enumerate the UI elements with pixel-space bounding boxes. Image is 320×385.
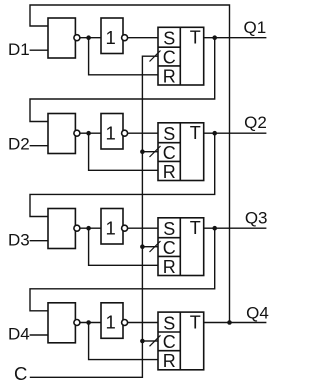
wire: clock branch to C input of FF2	[142, 151, 158, 153]
inversion bubble of gate G2	[74, 130, 80, 136]
wire: feedback from Q2 to gate G3 top input	[30, 133, 215, 216]
inversion bubble of gate G1	[74, 35, 80, 41]
wire: node to R input of FF1	[89, 38, 158, 75]
inversion bubble of gate G4	[74, 320, 80, 326]
wire: T output of FF4 to Q4	[204, 322, 267, 324]
node: G1 output junction	[86, 35, 91, 40]
svg-text:S: S	[163, 124, 175, 144]
inverter U1	[101, 18, 123, 54]
inverter U4	[101, 303, 123, 339]
wire: T output of FF1 to Q1	[204, 37, 267, 39]
wire: clock C distribution	[30, 56, 158, 377]
svg-text:T: T	[190, 28, 201, 48]
wire: gate G1 output node	[75, 37, 101, 39]
node: G2 output junction	[86, 131, 91, 136]
svg-text:C: C	[163, 332, 176, 352]
svg-text:D2: D2	[8, 135, 30, 154]
inversion bubble of inverter U4	[122, 320, 128, 326]
svg-text:Q2: Q2	[244, 113, 267, 132]
inverter U3	[101, 209, 123, 245]
wire: D1 to gate G1	[30, 49, 48, 51]
wire: node to R input of FF2	[89, 133, 158, 170]
junction on Q4 line (feedback to G1)	[227, 320, 232, 325]
wire: inverter U4 output to S input of FF4	[123, 322, 158, 324]
wire: node to R input of FF3	[89, 228, 158, 265]
svg-text:1: 1	[105, 122, 115, 143]
svg-text:S: S	[163, 313, 175, 333]
wire: D2 to gate G2	[30, 145, 48, 147]
dynamic clock input slash of FF2	[150, 146, 161, 157]
inversion bubble of inverter U2	[122, 130, 128, 136]
wire: inverter U1 output to S input of FF1	[123, 37, 158, 39]
svg-text:Q4: Q4	[246, 304, 269, 323]
svg-text:D4: D4	[8, 324, 30, 343]
svg-text:T: T	[190, 218, 201, 238]
svg-text:R: R	[163, 162, 176, 182]
svg-text:S: S	[163, 29, 175, 49]
wire: D3 to gate G3	[30, 240, 48, 242]
gate G1 (2-input, inverted output)	[48, 18, 75, 58]
junction on Q3 line	[212, 226, 217, 231]
flip-flop FF4 (S-C-R / T)	[158, 312, 204, 371]
inversion bubble of inverter U1	[122, 35, 128, 41]
junction on clock line at FF4	[140, 339, 145, 344]
wire: T output of FF3 to Q3	[204, 227, 267, 229]
junction on Q1 line	[212, 35, 217, 40]
wire: feedback from Q1 to gate G2 top input	[30, 38, 215, 122]
wire: clock branch to C input of FF3	[142, 246, 158, 248]
dynamic clock input slash of FF3	[150, 241, 161, 252]
dynamic clock input slash of FF1	[150, 51, 161, 62]
node: G3 output junction	[86, 226, 91, 231]
inversion bubble of gate G3	[74, 225, 80, 231]
wire: inverter U3 output to S input of FF3	[123, 227, 158, 229]
junction on clock line at FF2	[140, 149, 145, 154]
svg-text:Q1: Q1	[244, 18, 267, 37]
wire: gate G2 output node	[75, 132, 101, 134]
wire: feedback from Q3 to gate G4 top input	[30, 228, 215, 311]
svg-text:1: 1	[105, 312, 115, 333]
svg-text:C: C	[163, 47, 176, 67]
svg-text:R: R	[163, 66, 176, 86]
svg-text:Q3: Q3	[245, 209, 268, 228]
svg-text:S: S	[163, 219, 175, 239]
wire: node to R input of FF4	[89, 323, 158, 360]
wire: inverter U2 output to S input of FF2	[123, 132, 158, 134]
svg-text:C: C	[163, 143, 176, 163]
flip-flop FF3 (S-C-R / T)	[158, 218, 204, 277]
wire: clock branch to C input of FF4	[142, 340, 158, 342]
wire: gate G4 output node	[75, 322, 101, 324]
svg-text:D3: D3	[8, 231, 30, 250]
svg-text:T: T	[190, 123, 201, 143]
inversion bubble of inverter U3	[122, 225, 128, 231]
inverter U2	[101, 114, 123, 150]
wire: gate G3 output node	[75, 227, 101, 229]
svg-text:C: C	[14, 363, 27, 384]
svg-text:1: 1	[105, 217, 115, 238]
svg-text:T: T	[190, 312, 201, 332]
gate G4 (2-input, inverted output)	[48, 303, 75, 343]
flip-flop FF2 (S-C-R / T)	[158, 123, 204, 182]
svg-text:R: R	[163, 257, 176, 277]
dynamic clock input slash of FF4	[150, 335, 161, 346]
node: G4 output junction	[86, 320, 91, 325]
wire: T output of FF2 to Q2	[204, 132, 267, 134]
gate G3 (2-input, inverted output)	[48, 209, 75, 249]
svg-text:D1: D1	[8, 40, 30, 59]
junction on clock line at FF3	[140, 244, 145, 249]
svg-text:C: C	[163, 238, 176, 258]
flip-flop FF1 (S-C-R / T)	[158, 27, 204, 86]
gate G2 (2-input, inverted output)	[48, 114, 75, 154]
wire: feedback from Q4 to gate G1 top input	[30, 5, 230, 323]
svg-text:1: 1	[105, 27, 115, 48]
svg-text:R: R	[163, 351, 176, 371]
wire: D4 to gate G4	[30, 334, 48, 336]
junction on Q2 line	[212, 131, 217, 136]
